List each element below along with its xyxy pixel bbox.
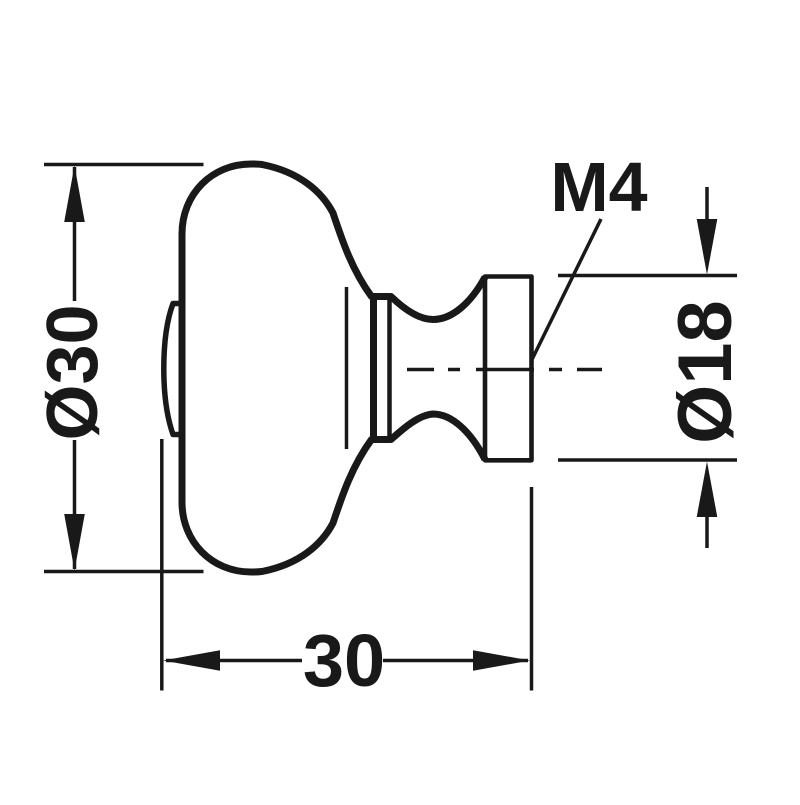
dim 30 line: [166, 659, 528, 663]
center line: [407, 368, 602, 372]
dim Ø18 bottom extension line: [558, 458, 737, 462]
dim Ø30 bottom arrow: [64, 514, 85, 571]
dim 30 left extension line: [160, 439, 164, 691]
dim Ø18 top arrow: [705, 187, 709, 220]
dim Ø18 top extension line: [558, 274, 737, 278]
dim Ø18 bottom arrow: [705, 517, 709, 549]
flange left edge: [370, 297, 377, 440]
svg-text:Ø18: Ø18: [663, 300, 748, 444]
knob front face arc: [164, 304, 182, 435]
dim Ø30 top extension line: [44, 163, 204, 167]
svg-text:M4: M4: [550, 148, 647, 226]
dim 30 right arrow: [473, 650, 530, 671]
svg-text:30: 30: [303, 619, 385, 702]
dim Ø30 top arrow: [64, 166, 85, 223]
base cylinder: [485, 277, 532, 461]
knob head profile: [182, 164, 485, 572]
dim Ø30 bottom extension line: [44, 570, 204, 574]
svg-text:Ø30: Ø30: [33, 304, 113, 440]
dim 30 right extension line: [530, 487, 534, 691]
M4 leader line: [532, 219, 602, 361]
dim Ø30 line: [73, 167, 77, 569]
dim 30 left arrow: [163, 650, 220, 671]
head back face line: [345, 287, 349, 449]
flange right edge: [387, 297, 392, 440]
